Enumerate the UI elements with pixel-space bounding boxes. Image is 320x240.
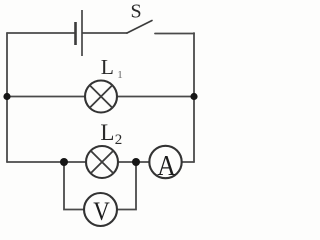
wire L2 row left	[7, 161, 86, 163]
lamp L1 cross	[90, 85, 113, 108]
svg-text:V: V	[93, 198, 110, 227]
junction dot left L1	[3, 93, 10, 100]
wire L1 row left	[7, 96, 85, 98]
wire L2 to ammeter	[118, 161, 150, 163]
wire left vertical	[6, 33, 8, 162]
svg-text:A: A	[157, 150, 176, 182]
battery long plate (positive)	[81, 10, 83, 56]
svg-text:2: 2	[115, 132, 123, 148]
svg-text:1: 1	[117, 69, 123, 81]
junction dot right of L2	[132, 158, 140, 166]
lamp L1 circle	[85, 81, 117, 113]
svg-text:S: S	[130, 1, 141, 23]
wire switch to top-right corner	[155, 33, 194, 35]
junction dot left of L2	[60, 158, 68, 166]
voltmeter V circle	[84, 193, 117, 226]
wire L1 row right	[117, 96, 194, 98]
wire right vertical	[193, 33, 195, 162]
switch S blade	[127, 21, 152, 34]
svg-text:L: L	[100, 120, 114, 145]
wire voltmeter left branch	[64, 162, 84, 210]
wire top-left segment	[7, 32, 75, 34]
wire voltmeter right branch	[117, 162, 136, 210]
ammeter A circle	[149, 146, 181, 178]
junction dot right L1	[190, 93, 197, 100]
wire ammeter to right vertical	[182, 161, 194, 163]
battery short plate (negative)	[74, 22, 77, 45]
lamp L2 circle	[86, 146, 118, 178]
lamp L2 cross	[91, 151, 114, 174]
svg-text:L: L	[101, 55, 114, 79]
wire battery to switch	[83, 32, 127, 34]
